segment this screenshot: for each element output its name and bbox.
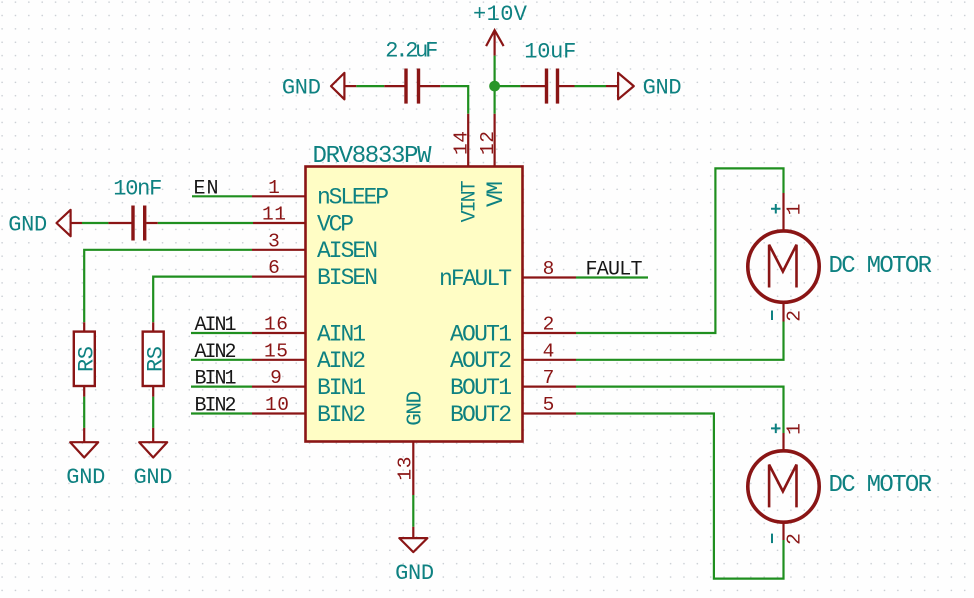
pin 2 AOUT1 [450,314,576,348]
pin 8 nFAULT [439,258,576,292]
svg-text:2: 2 [784,310,806,322]
svg-text:5: 5 [543,394,555,416]
svg-text:BIN1: BIN1 [195,368,237,391]
wire BISEN net to RS2 [153,277,252,323]
svg-text:RS: RS [74,346,99,372]
svg-text:6: 6 [268,257,280,279]
svg-text:BIN1: BIN1 [317,375,366,401]
wire BIN2 label to pin 10 [191,412,252,414]
svg-text:12: 12 [477,131,499,155]
svg-text:DC MOTOR: DC MOTOR [829,253,933,280]
capacitor C2 2.2uF [384,39,440,104]
svg-text:2: 2 [543,314,555,336]
wire AOUT1 to motor1 plus [576,168,784,333]
pin 7 BOUT1 [450,367,576,401]
svg-text:GND: GND [134,465,173,490]
pin 9 BIN1 [252,367,366,401]
svg-text:11: 11 [262,204,286,226]
svg-text:13: 13 [395,457,417,481]
wire BOUT2 to motor2 minus [576,414,784,579]
ground GND (10nF left) [8,210,82,238]
svg-text:nFAULT: nFAULT [439,266,512,292]
ground GND (2.2uF left) [282,73,356,101]
wire 2.2uF right to pin 14 [440,86,468,114]
svg-text:7: 7 [543,367,555,389]
svg-text:AISEN: AISEN [317,238,378,264]
pin 15 AIN2 [252,340,366,374]
ground GND (10uF right) [606,73,682,101]
wire RS1 bottom to GND [83,397,85,428]
svg-text:BOUT1: BOUT1 [450,375,512,401]
pin 13 GND [395,391,428,495]
svg-text:10: 10 [265,394,289,416]
ground GND (below IC pin 13) [395,527,434,586]
svg-text:10nF: 10nF [113,177,162,202]
svg-text:BIN2: BIN2 [195,395,237,418]
svg-text:GND: GND [404,391,427,426]
svg-text:2.2uF: 2.2uF [385,39,438,64]
motor M1 DC MOTOR [748,193,932,322]
op-amp U1 DRV8833PW body [306,167,523,442]
wire AIN1 label to pin 16 [191,332,252,334]
pin 14 VINT [451,114,482,223]
svg-text:10uF: 10uF [524,40,576,65]
pin 11 VCP [253,204,354,238]
svg-text:GND: GND [395,561,434,586]
pin 10 BIN2 [252,394,366,428]
wire 10uF right to GND [575,85,607,87]
ground GND (below R1) [66,428,105,490]
svg-text:14: 14 [451,131,473,155]
svg-text:VINT: VINT [459,180,482,222]
capacitor C3 10uF [520,40,576,104]
svg-text:RS: RS [143,346,168,372]
svg-text:AOUT1: AOUT1 [450,321,512,347]
svg-text:AIN1: AIN1 [317,321,366,347]
svg-text:AOUT2: AOUT2 [450,348,512,374]
wire BOUT1 to motor2 plus [576,387,784,433]
wire pin13 to GND [412,495,414,527]
label EN [194,177,219,200]
wire RS2 bottom to GND [152,397,154,428]
U1 value DRV8833PW [313,143,433,170]
pin 1 nSLEEP [252,177,389,211]
svg-text:DRV8833PW: DRV8833PW [313,143,433,170]
label FAULT [586,259,643,282]
power +10V [473,2,528,56]
resistor R2 RS [143,322,169,396]
wire junction to 10uF left [495,85,521,87]
pin 16 AIN1 [252,314,366,348]
pin 4 AOUT2 [450,340,576,374]
pin 6 BISEN [252,257,378,291]
svg-text:BOUT2: BOUT2 [450,402,512,428]
svg-text:FAULT: FAULT [586,259,643,282]
svg-text:1: 1 [784,423,806,435]
svg-text:BIN2: BIN2 [317,402,366,428]
wire +10V to junction to pin 12 [494,56,496,114]
svg-text:VCP: VCP [317,211,354,237]
label BIN2 [195,395,237,418]
svg-text:1: 1 [784,204,806,216]
svg-text:GND: GND [643,75,682,100]
label BIN1 [195,368,237,391]
wire AOUT2 to motor1 minus [576,322,784,360]
wire AIN2 label to pin 15 [191,359,252,361]
capacitor C1 10nF [108,177,162,241]
svg-text:+10V: +10V [473,2,528,27]
junction node VM [489,81,500,92]
svg-text:2: 2 [784,533,806,545]
svg-text:9: 9 [270,367,282,389]
wire AISEN net to RS1 [84,250,252,322]
resistor R1 RS [74,322,100,396]
svg-text:AIN2: AIN2 [317,348,366,374]
svg-text:GND: GND [282,75,321,100]
wire EN to pin 1 [192,195,252,197]
svg-text:VM: VM [483,181,509,207]
svg-text:4: 4 [543,340,555,362]
svg-text:16: 16 [264,314,288,336]
svg-text:GND: GND [66,465,105,490]
wire GND to 2.2uF left [356,85,384,87]
svg-text:GND: GND [8,212,47,237]
svg-text:DC MOTOR: DC MOTOR [829,472,933,499]
svg-text:EN: EN [194,177,219,200]
wire BIN1 label to pin 9 [191,386,252,388]
svg-text:nSLEEP: nSLEEP [317,185,389,211]
svg-text:AIN2: AIN2 [195,341,237,364]
svg-text:15: 15 [264,340,288,362]
label AIN1 [195,314,237,337]
label AIN2 [195,341,237,364]
wire nFAULT to FAULT label [576,276,648,278]
svg-text:8: 8 [543,258,555,280]
pin 5 BOUT2 [450,394,576,428]
pin 12 VM [477,114,509,207]
svg-text:BISEN: BISEN [317,265,378,291]
svg-text:1: 1 [268,177,280,199]
ground GND (below R2) [134,428,173,490]
svg-text:AIN1: AIN1 [195,314,237,337]
wire VCP net (GND cap to pin 11) [82,222,253,224]
motor M2 DC MOTOR [748,423,932,545]
svg-text:3: 3 [268,230,280,252]
pin 3 AISEN [252,230,378,264]
